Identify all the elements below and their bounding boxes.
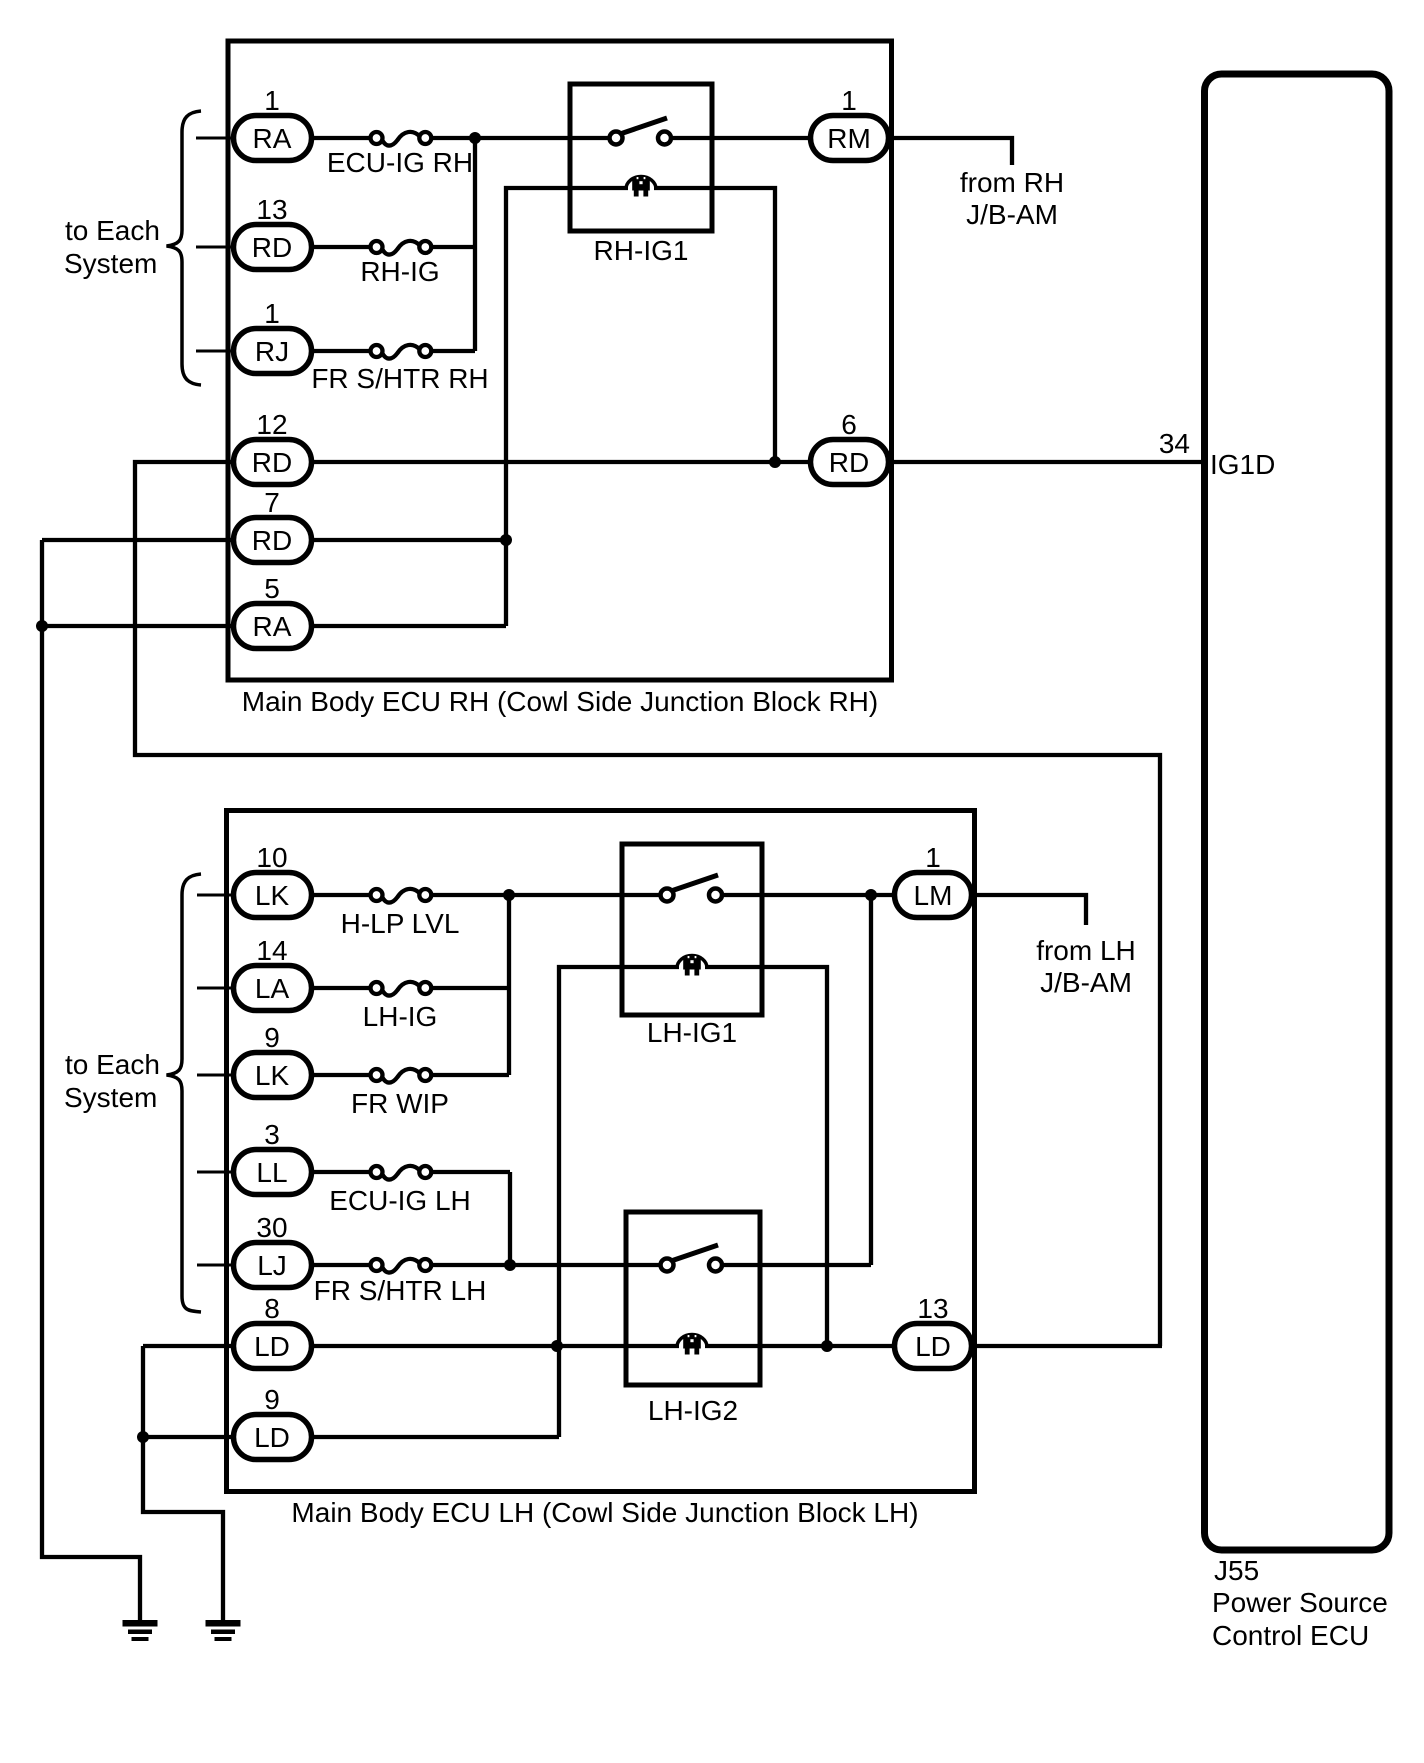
wire RD13 to fuse bbox=[314, 245, 371, 249]
svg-text:9: 9 bbox=[264, 1022, 280, 1053]
svg-text:to Each: to Each bbox=[65, 215, 160, 246]
svg-text:3: 3 bbox=[264, 1119, 280, 1150]
box Main Body ECU RH bbox=[228, 41, 892, 680]
fuse ECU-IG RH bbox=[371, 132, 432, 146]
wire RM output to from RH J/B-AM bbox=[891, 138, 1012, 165]
svg-text:1: 1 bbox=[925, 842, 941, 873]
connector pin RD 13 bbox=[234, 194, 312, 270]
wire fuse bus LH upper vertical bbox=[507, 895, 511, 1075]
coil RH-IG1 bbox=[626, 177, 656, 197]
wire RD7 left bbox=[42, 538, 233, 542]
fuse FR S/HTR LH bbox=[371, 1259, 432, 1273]
coil LH-IG1 bbox=[677, 956, 707, 976]
svg-text:Control ECU: Control ECU bbox=[1212, 1620, 1369, 1651]
wire fuse bus RH vertical bbox=[473, 138, 477, 351]
svg-text:ECU-IG RH: ECU-IG RH bbox=[327, 147, 473, 178]
wire stub pin RJ1 bbox=[196, 350, 233, 353]
connector pin LJ 30 bbox=[234, 1212, 312, 1288]
wire stub pin LA14 bbox=[197, 987, 233, 990]
svg-text:9: 9 bbox=[264, 1384, 280, 1415]
svg-text:1: 1 bbox=[264, 298, 280, 329]
svg-text:Main Body ECU LH (Cowl Side Ju: Main Body ECU LH (Cowl Side Junction Blo… bbox=[291, 1497, 918, 1528]
wire RA5 right to coil bus bbox=[314, 624, 506, 628]
connector pin LD 8 bbox=[234, 1293, 312, 1369]
svg-text:30: 30 bbox=[256, 1212, 287, 1243]
wire fuse FR S/HTR LH to relay switch LH-IG2 bbox=[431, 1263, 662, 1267]
relay LH-IG2 box bbox=[626, 1212, 760, 1385]
wire left main ground run bbox=[42, 540, 140, 1621]
fuse H-LP LVL bbox=[371, 889, 432, 903]
connector pin RM 1 bbox=[811, 85, 889, 161]
wire fuse to relay switch RH-IG1 bbox=[431, 136, 611, 140]
wire coil RH-IG1 right side down to RD6 bbox=[654, 188, 775, 462]
svg-text:RH-IG: RH-IG bbox=[360, 256, 439, 287]
svg-text:5: 5 bbox=[264, 573, 280, 604]
svg-text:to Each: to Each bbox=[65, 1049, 160, 1080]
wire RJ1 to fuse bbox=[314, 349, 371, 353]
svg-text:LL: LL bbox=[256, 1157, 287, 1188]
svg-text:10: 10 bbox=[256, 842, 287, 873]
svg-text:LD: LD bbox=[254, 1422, 290, 1453]
svg-text:1: 1 bbox=[841, 85, 857, 116]
svg-text:7: 7 bbox=[264, 487, 280, 518]
junction dot LM branch bbox=[865, 889, 877, 901]
wire RD6 to IG1D pin 34 bbox=[891, 460, 1201, 464]
junction dot bus LH lower bbox=[504, 1259, 516, 1271]
wire fuse LH-IG to bus bbox=[431, 986, 509, 990]
junction dot LD13 row bbox=[821, 1340, 833, 1352]
wire LD13 output to loop bbox=[974, 1344, 1162, 1348]
connector pin RA 1 bbox=[234, 85, 312, 161]
wire fuse FR S/HTR RH to bus bbox=[431, 349, 475, 353]
switch RH-IG1 bbox=[610, 118, 672, 145]
svg-text:LK: LK bbox=[255, 880, 290, 911]
svg-text:RD: RD bbox=[252, 232, 292, 263]
connector pin LD 9 bbox=[234, 1384, 312, 1460]
wire stub pin LK9 bbox=[197, 1074, 233, 1077]
switch LH-IG2 bbox=[661, 1245, 723, 1272]
wire LD8 left bbox=[143, 1344, 233, 1348]
svg-text:FR WIP: FR WIP bbox=[351, 1088, 449, 1119]
wire RA5 left bbox=[42, 624, 233, 628]
svg-text:1: 1 bbox=[264, 85, 280, 116]
wire switch LH-IG2 output bbox=[722, 1263, 871, 1267]
junction dot LD8 row bbox=[551, 1340, 563, 1352]
connector pin LD 13 bbox=[895, 1293, 972, 1369]
wire fuse FR WIP to bus bbox=[431, 1073, 509, 1077]
connector pin LM 1 bbox=[895, 842, 972, 918]
junction dot coil to RD6 bbox=[769, 456, 781, 468]
box Main Body ECU LH bbox=[227, 811, 975, 1492]
connector pin LA 14 bbox=[234, 935, 312, 1011]
svg-text:LM: LM bbox=[914, 880, 953, 911]
ECU J55 box bbox=[1205, 74, 1390, 1550]
wire stub pin RA1 bbox=[196, 137, 233, 140]
wire coil LH-IG2 to LD13 bbox=[705, 1344, 896, 1348]
wire LD ground run bbox=[143, 1346, 223, 1621]
svg-text:RD: RD bbox=[252, 525, 292, 556]
wire LD8 to LH-IG2 coil bbox=[314, 1344, 679, 1348]
ground G2 bbox=[206, 1620, 241, 1641]
wire LA14 to fuse bbox=[314, 986, 371, 990]
brace to Each System (LH) bbox=[167, 874, 202, 1312]
svg-text:13: 13 bbox=[256, 194, 287, 225]
coil LH-IG2 bbox=[677, 1335, 707, 1355]
wire stub pin LJ30 bbox=[197, 1264, 233, 1267]
wire LD9 right to coil bus bbox=[314, 1435, 559, 1439]
junction dot bus RH bbox=[469, 132, 481, 144]
svg-text:J/B-AM: J/B-AM bbox=[1040, 967, 1132, 998]
wire switch LH-IG1 to LM bbox=[722, 893, 896, 897]
svg-text:from RH: from RH bbox=[960, 167, 1064, 198]
wire fuse RH-IG to bus bbox=[431, 245, 475, 249]
svg-text:RM: RM bbox=[827, 123, 871, 154]
svg-text:RA: RA bbox=[253, 123, 292, 154]
wire coil RH-IG1 left side bbox=[506, 188, 628, 626]
svg-text:Main Body ECU RH (Cowl Side Ju: Main Body ECU RH (Cowl Side Junction Blo… bbox=[242, 686, 878, 717]
wire LK9 to fuse bbox=[314, 1073, 371, 1077]
svg-text:LD: LD bbox=[254, 1331, 290, 1362]
svg-text:LH-IG2: LH-IG2 bbox=[648, 1395, 738, 1426]
wire LK10 to fuse bbox=[314, 893, 371, 897]
svg-text:J/B-AM: J/B-AM bbox=[966, 199, 1058, 230]
svg-text:FR S/HTR LH: FR S/HTR LH bbox=[314, 1275, 487, 1306]
connector pin RD 7 bbox=[234, 487, 312, 563]
svg-text:J55: J55 bbox=[1214, 1555, 1259, 1586]
svg-text:IG1D: IG1D bbox=[1210, 449, 1275, 480]
svg-text:12: 12 bbox=[256, 409, 287, 440]
svg-text:RA: RA bbox=[253, 611, 292, 642]
fuse FR S/HTR RH bbox=[371, 345, 432, 359]
svg-text:RD: RD bbox=[829, 447, 869, 478]
wire stub pin LK10 bbox=[197, 894, 233, 897]
svg-text:ECU-IG LH: ECU-IG LH bbox=[329, 1185, 471, 1216]
junction dot LD9 left bbox=[137, 1431, 149, 1443]
svg-text:RJ: RJ bbox=[255, 336, 289, 367]
wire vertical LM branch to LH-IG2 switch bbox=[869, 895, 873, 1265]
wire coil LH-IG1 right side down to LD13 row bbox=[705, 967, 827, 1346]
wire LM output to from LH J/B-AM bbox=[974, 895, 1086, 925]
wire stub pin LL3 bbox=[197, 1171, 233, 1174]
ground G1 bbox=[123, 1620, 158, 1641]
svg-text:Power Source: Power Source bbox=[1212, 1587, 1388, 1618]
junction dot RD7 coil bus bbox=[500, 534, 512, 546]
connector pin LK 10 bbox=[234, 842, 312, 918]
svg-text:LD: LD bbox=[915, 1331, 951, 1362]
svg-text:System: System bbox=[64, 248, 157, 279]
wire LJ30 to fuse bbox=[314, 1263, 371, 1267]
svg-text:6: 6 bbox=[841, 409, 857, 440]
wire coil LH-IG1 left side down to LD9 bbox=[559, 967, 679, 1437]
svg-text:LK: LK bbox=[255, 1060, 290, 1091]
connector pin RD 12 bbox=[234, 409, 312, 485]
connector pin RA 5 bbox=[234, 573, 312, 649]
svg-text:LH-IG1: LH-IG1 bbox=[647, 1017, 737, 1048]
wire fuse bus LH lower vertical bbox=[508, 1172, 512, 1265]
brace to Each System (RH) bbox=[167, 111, 202, 385]
svg-text:8: 8 bbox=[264, 1293, 280, 1324]
connector pin LK 9 bbox=[234, 1022, 312, 1098]
svg-text:13: 13 bbox=[917, 1293, 948, 1324]
svg-text:14: 14 bbox=[256, 935, 287, 966]
wire LD9 left bbox=[143, 1435, 233, 1439]
junction dot RA5 left bbox=[36, 620, 48, 632]
svg-text:34: 34 bbox=[1159, 428, 1190, 459]
wire LL3 to fuse bbox=[314, 1170, 371, 1174]
wire fuse ECU-IG LH to bus bbox=[431, 1170, 510, 1174]
fuse LH-IG bbox=[371, 982, 432, 996]
svg-text:FR S/HTR RH: FR S/HTR RH bbox=[311, 363, 488, 394]
wire fuse to relay switch LH-IG1 bbox=[431, 893, 662, 897]
relay LH-IG1 box bbox=[622, 844, 762, 1015]
junction dot bus LH upper bbox=[503, 889, 515, 901]
connector pin RJ 1 bbox=[234, 298, 312, 374]
wire RD12 to RD6 internal bbox=[314, 460, 812, 464]
switch LH-IG1 bbox=[661, 875, 723, 902]
fuse RH-IG bbox=[371, 241, 432, 255]
wire RA1 to fuse bbox=[314, 136, 371, 140]
svg-text:System: System bbox=[64, 1082, 157, 1113]
svg-text:from LH: from LH bbox=[1036, 935, 1136, 966]
wire switch RH-IG1 to RM bbox=[670, 136, 812, 140]
svg-text:RH-IG1: RH-IG1 bbox=[594, 235, 689, 266]
svg-text:LH-IG: LH-IG bbox=[363, 1001, 438, 1032]
connector pin RD 6 bbox=[811, 409, 889, 485]
wire stub pin RD13 bbox=[196, 246, 233, 249]
svg-text:LJ: LJ bbox=[257, 1250, 287, 1281]
connector pin LL 3 bbox=[234, 1119, 312, 1195]
svg-text:H-LP LVL: H-LP LVL bbox=[341, 908, 460, 939]
fuse FR WIP bbox=[371, 1069, 432, 1083]
svg-text:RD: RD bbox=[252, 447, 292, 478]
wire RD12 left loop to LD13 bbox=[135, 462, 1160, 1346]
relay RH-IG1 box bbox=[570, 84, 712, 231]
fuse ECU-IG LH bbox=[371, 1166, 432, 1180]
svg-text:LA: LA bbox=[255, 973, 290, 1004]
wire RD7 right to coil bus bbox=[314, 538, 506, 542]
